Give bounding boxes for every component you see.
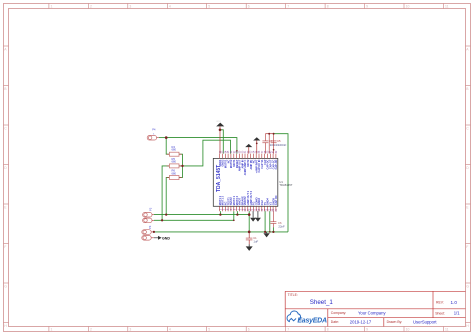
junction P4 net (165, 136, 168, 139)
U1 bottom pins with numbers and names (218, 190, 278, 211)
wire R5 left to wire2 (162, 166, 169, 220)
svg-text:9: 9 (366, 328, 368, 332)
U1 reference designator (279, 180, 292, 187)
ground below C1 (246, 244, 253, 251)
ground below wire3 (263, 232, 269, 238)
svg-text:VCC: VCC (216, 121, 221, 123)
svg-text:2: 2 (90, 4, 92, 8)
title block texts (288, 293, 461, 324)
svg-text:3: 3 (129, 328, 131, 332)
svg-text:Your Company: Your Company (358, 310, 386, 315)
junction wire1 a (219, 213, 221, 215)
connector P4 (147, 127, 159, 140)
junction wire2 riser (233, 219, 235, 221)
power flag VCC2 (245, 144, 252, 154)
capacitor C1 1uF (246, 232, 259, 244)
capacitor C4 100nF (262, 134, 278, 154)
svg-text:5: 5 (208, 328, 210, 332)
wire pin18 to wire3 (269, 211, 271, 232)
wire1 riser a (219, 211, 221, 214)
svg-text:680: 680 (172, 160, 177, 164)
wire pin16 to wire3 (264, 211, 266, 232)
svg-text:10: 10 (406, 4, 410, 8)
junction top loop A pin (236, 150, 238, 152)
svg-text:2: 2 (90, 328, 92, 332)
svg-text:1: 1 (51, 328, 53, 332)
svg-text:P2: P2 (149, 207, 153, 211)
svg-text:100nF: 100nF (278, 143, 287, 147)
svg-text:UserSupport: UserSupport (413, 319, 437, 324)
svg-text:2019-12-17: 2019-12-17 (350, 319, 372, 324)
svg-text:7: 7 (287, 328, 289, 332)
wire C6 bottom to wire3 (272, 227, 274, 232)
svg-text:10: 10 (406, 328, 410, 332)
svg-text:6: 6 (248, 328, 250, 332)
svg-text:680: 680 (172, 148, 177, 152)
svg-text:1.0: 1.0 (451, 300, 458, 305)
svg-text:G: G (466, 285, 469, 289)
junction VCC stem (219, 129, 222, 132)
svg-text:F: F (466, 245, 468, 249)
junction rail b (273, 133, 275, 135)
svg-text:4: 4 (169, 4, 171, 8)
svg-text:680: 680 (172, 171, 177, 175)
svg-text:CAP-CD: CAP-CD (274, 159, 278, 169)
svg-text:1: 1 (51, 4, 53, 8)
wire R5 right lead (179, 165, 183, 167)
svg-text:REV:: REV: (436, 300, 444, 304)
svg-text:9: 9 (366, 4, 368, 8)
junction rail a (268, 133, 270, 135)
wire R4 right chain to R6 right (179, 154, 183, 177)
op-amp U1 TDA_5145T IC body (213, 158, 277, 206)
wire net top loop A (166, 138, 237, 154)
capacitor C6 22nF (270, 211, 285, 228)
svg-text:P4: P4 (152, 127, 156, 131)
svg-text:G: G (4, 285, 7, 289)
wire2 P2 pin2 net (154, 211, 234, 220)
junction wire1 c1 (248, 213, 251, 216)
junction R chain (181, 165, 183, 167)
capacitor C5 100nF (271, 139, 287, 147)
wire net top loop B (183, 140, 231, 166)
connector P3 (142, 225, 154, 240)
svg-text:6: 6 (248, 4, 250, 8)
wire3 P3 pin1 net (154, 231, 288, 233)
svg-text:Sheet:: Sheet: (435, 311, 445, 315)
svg-text:1uF: 1uF (253, 240, 258, 244)
wire1 P2 pin1 net (154, 214, 249, 216)
svg-text:TDA5145T: TDA5145T (279, 183, 292, 187)
wire right rail (274, 134, 288, 232)
svg-text:EasyEDA: EasyEDA (297, 317, 327, 324)
svg-text:1/1: 1/1 (454, 311, 460, 316)
svg-text:Company:: Company: (331, 311, 347, 315)
svg-text:TITLE:: TITLE: (288, 293, 298, 297)
svg-text:P3: P3 (148, 225, 152, 229)
svg-text:8: 8 (327, 4, 329, 8)
svg-text:CAP CD: CAP CD (274, 195, 278, 205)
junction rail c (273, 149, 275, 151)
junction wire3 pin16 (264, 231, 266, 233)
junction wire3 c1 (248, 231, 251, 234)
junction wire3 p3 (153, 231, 155, 233)
svg-text:11: 11 (445, 328, 449, 332)
connector P2 (143, 207, 154, 223)
junction wire1 b (236, 213, 238, 215)
resistor R5 680 (167, 157, 182, 168)
junction wire3 c6 (272, 231, 274, 233)
wire P4 to junction (159, 137, 166, 139)
power flag VCC1 (216, 121, 224, 154)
svg-text:TDA_5145T: TDA_5145T (216, 165, 222, 192)
GND net flag at P3 pin 2 (154, 236, 170, 241)
svg-text:5: 5 (208, 4, 210, 8)
EasyEDA logo (287, 311, 327, 324)
power flag VCC3 (253, 137, 260, 153)
svg-text:8: 8 (327, 328, 329, 332)
svg-text:GND: GND (162, 236, 170, 240)
wire junction to R4 left (166, 138, 169, 155)
wire VCC jog to pin2 (220, 130, 223, 154)
svg-text:Date:: Date: (331, 320, 339, 324)
junction wire2 r5 (161, 219, 163, 221)
svg-text:F: F (4, 245, 6, 249)
svg-text:11: 11 (445, 4, 449, 8)
junction wire1 r6 (165, 213, 167, 215)
junction VCC3 stem (256, 143, 258, 145)
svg-text:Drawn By:: Drawn By: (387, 320, 403, 324)
svg-text:4: 4 (169, 328, 171, 332)
svg-text:7: 7 (287, 4, 289, 8)
junction wire3 pin18 (269, 231, 271, 233)
ground on U1 pin 12 (250, 211, 256, 222)
wire1 riser b (236, 211, 238, 214)
U1 top pins with numbers and names (218, 150, 278, 175)
svg-text:3: 3 (129, 4, 131, 8)
title block grid lines (285, 291, 465, 326)
svg-text:22nF: 22nF (278, 224, 285, 228)
wire C1 column (248, 211, 250, 232)
wire R6 left to wire1 (166, 178, 169, 215)
ground on U1 pin 14 (255, 211, 261, 222)
wire top-right cap rail (265, 134, 273, 154)
svg-text:Sheet_1: Sheet_1 (310, 299, 334, 306)
resistor R6 680 (167, 169, 182, 180)
resistor R4 680 (167, 145, 182, 156)
